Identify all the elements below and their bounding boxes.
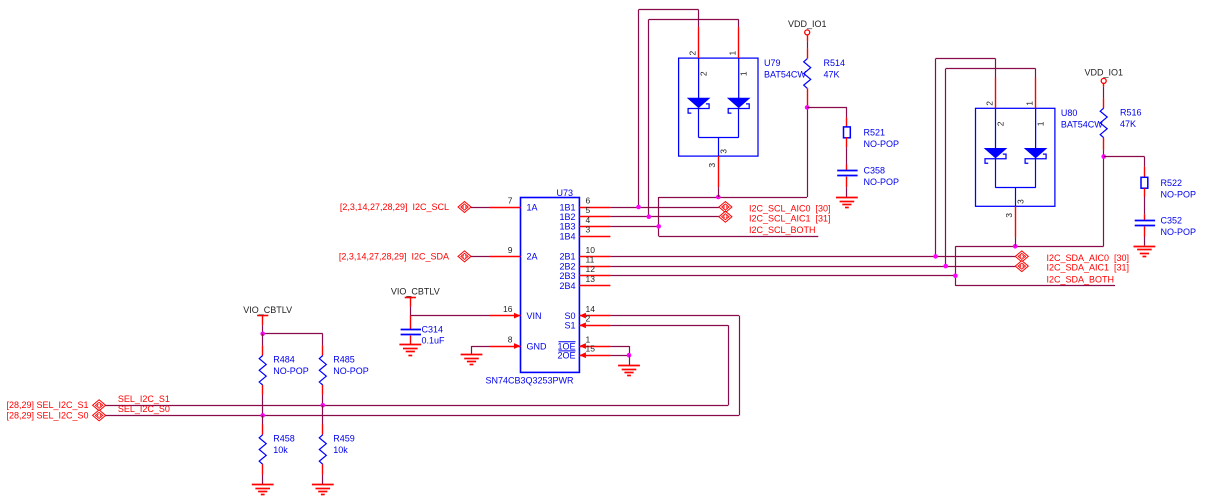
junction R516 bottom bbox=[1101, 154, 1106, 159]
svg-text:1: 1 bbox=[739, 71, 749, 76]
U80 pin number 1 bbox=[1025, 101, 1035, 106]
R458 top lead bbox=[262, 415, 264, 434]
svg-text:BAT54CW: BAT54CW bbox=[764, 70, 806, 80]
R484 reference bbox=[273, 355, 295, 365]
U79 pin 3 lead bbox=[718, 156, 720, 197]
U73 pin 5 stub bbox=[579, 205, 610, 216]
svg-text:NO-POP: NO-POP bbox=[333, 366, 369, 376]
svg-text:9: 9 bbox=[508, 245, 513, 255]
net label I2C_SCL_AIC0 bbox=[749, 204, 831, 214]
svg-text:1: 1 bbox=[1036, 121, 1046, 126]
C352 reference bbox=[1161, 216, 1183, 226]
R514 value 47K bbox=[824, 70, 840, 80]
svg-text:VIO_CBTLV: VIO_CBTLV bbox=[243, 305, 292, 315]
svg-text:3: 3 bbox=[1016, 199, 1026, 204]
R521 bottom lead bbox=[846, 137, 848, 164]
wire R514 junction to R521 bbox=[807, 107, 847, 117]
C314 reference bbox=[422, 325, 444, 335]
R516 reference bbox=[1120, 107, 1142, 117]
junction R514 bottom bbox=[805, 105, 810, 110]
svg-text:14: 14 bbox=[586, 304, 596, 314]
svg-text:1: 1 bbox=[728, 51, 738, 56]
U80 internal cathode join bbox=[996, 158, 1036, 206]
net label I2C_SDA bbox=[339, 251, 449, 261]
U80 pin number 2 bbox=[985, 101, 995, 106]
svg-text:NO-POP: NO-POP bbox=[1161, 227, 1197, 237]
net name SEL_I2C_S0 bbox=[118, 404, 170, 414]
svg-text:VIN: VIN bbox=[527, 311, 542, 321]
wire R516 junction to R522 bbox=[1104, 157, 1145, 167]
R516 value 47K bbox=[1120, 119, 1136, 129]
wire 1B1 up-loop to U79 pin 2 bbox=[639, 10, 699, 208]
svg-text:4: 4 bbox=[586, 215, 591, 225]
resistor R458 bbox=[259, 435, 266, 465]
svg-text:I2C_SCL_AIC0 [30]: I2C_SCL_AIC0 [30] bbox=[749, 204, 831, 214]
svg-text:U79: U79 bbox=[764, 58, 781, 68]
svg-text:VIO_CBTLV: VIO_CBTLV bbox=[391, 286, 440, 296]
U73 pin name S0 bbox=[564, 311, 575, 321]
U73 pin name GND bbox=[527, 341, 548, 351]
off-page connector SEL_I2C_S1 bbox=[93, 400, 106, 411]
wire 1B2 to connector bbox=[610, 216, 719, 218]
svg-text:[2,3,14,27,28,29] I2C_SDA: [2,3,14,27,28,29] I2C_SDA bbox=[339, 251, 449, 261]
wire S1 net bbox=[106, 325, 729, 405]
svg-text:SEL_I2C_S0: SEL_I2C_S0 bbox=[118, 404, 170, 414]
R521 reference bbox=[864, 128, 886, 138]
svg-text:2B3: 2B3 bbox=[559, 271, 575, 281]
U73 pin name 1OE (active low) bbox=[557, 341, 575, 351]
svg-text:47K: 47K bbox=[824, 70, 840, 80]
R522 reference bbox=[1161, 178, 1183, 188]
svg-text:NO-POP: NO-POP bbox=[864, 139, 900, 149]
svg-text:R484: R484 bbox=[273, 355, 295, 365]
net label I2C_SCL bbox=[340, 202, 449, 212]
net name VIO_CBTLV (C314) bbox=[391, 286, 440, 296]
U80 pin 1 lead bbox=[1035, 78, 1037, 109]
wire I2C_SDA_BOTH bbox=[955, 285, 1115, 287]
svg-text:13: 13 bbox=[586, 274, 596, 284]
net label I2C_SCL_AIC1 bbox=[749, 213, 831, 223]
net label I2C_SDA_BOTH bbox=[1047, 275, 1115, 285]
R485 value NO-POP bbox=[333, 366, 369, 376]
resistor R485 (NO-POP) bbox=[319, 356, 326, 386]
svg-text:VDD_IO1: VDD_IO1 bbox=[1084, 68, 1123, 78]
wire U80 pin3 bus bbox=[955, 246, 1103, 248]
svg-text:3: 3 bbox=[707, 163, 717, 168]
capacitor C358 (NO-POP) bbox=[837, 171, 857, 176]
wire 2B1 to connector bbox=[610, 256, 1015, 258]
U79 value BAT54CW bbox=[764, 70, 806, 80]
junction 2B1 bbox=[933, 254, 938, 259]
U79 pin number 2 bbox=[688, 51, 698, 56]
net name VDD_IO1 (left) bbox=[788, 19, 827, 29]
U79 pin number 1 bbox=[728, 51, 738, 56]
C352 value NO-POP bbox=[1161, 227, 1197, 237]
junction 1B3 bbox=[656, 224, 661, 229]
U73 pin name 1B1 bbox=[559, 202, 575, 212]
wire 2B2 up-loop to U80 pin 1 bbox=[946, 69, 1036, 267]
U73 pin 2 stub bbox=[579, 314, 610, 328]
R514 reference bbox=[824, 58, 846, 68]
capacitor C314 bbox=[401, 330, 421, 335]
R522 bottom lead bbox=[1144, 188, 1146, 214]
wire I2C_SCL_BOTH vertical bbox=[658, 197, 660, 236]
resistor R459 bbox=[319, 435, 326, 465]
svg-text:47K: 47K bbox=[1120, 119, 1136, 129]
R521 value NO-POP bbox=[864, 139, 900, 149]
U73 value SN74CB3Q3253PWR bbox=[486, 376, 575, 386]
U80 pin 3 lead bbox=[1015, 206, 1017, 246]
U73 pin name 2B2 bbox=[559, 261, 575, 271]
svg-text:BAT54CW: BAT54CW bbox=[1061, 120, 1103, 130]
svg-text:11: 11 bbox=[586, 255, 595, 265]
U73 pin name VIN bbox=[527, 311, 542, 321]
wire 1B3 bbox=[610, 226, 658, 228]
svg-text:R514: R514 bbox=[824, 58, 846, 68]
junction OE bbox=[627, 353, 632, 358]
R485 bottom lead bbox=[322, 385, 324, 405]
U73 pin name 2B4 bbox=[559, 281, 575, 291]
svg-text:I2C_SCL_BOTH: I2C_SCL_BOTH bbox=[749, 225, 816, 235]
U73 pin 12 stub bbox=[579, 264, 610, 275]
U73 pin name 1A bbox=[527, 202, 538, 212]
U80 pin name 1 bbox=[1036, 121, 1046, 126]
svg-text:16: 16 bbox=[503, 304, 513, 314]
ground below R459 bbox=[312, 485, 334, 495]
R484 value NO-POP bbox=[273, 366, 309, 376]
U79 pin 2 lead bbox=[698, 27, 700, 58]
svg-text:R522: R522 bbox=[1161, 178, 1183, 188]
ground at U73 GND bbox=[461, 355, 483, 365]
U73 pin 14 stub bbox=[579, 304, 610, 319]
wire S0 net bbox=[106, 316, 740, 416]
R514 bottom lead bbox=[807, 88, 809, 107]
capacitor C314 top lead bbox=[410, 316, 412, 330]
svg-text:3: 3 bbox=[586, 225, 591, 235]
svg-text:R459: R459 bbox=[333, 434, 355, 444]
U73 pin 1 stub bbox=[579, 334, 610, 349]
U79 diode D1 (left, pin 2) bbox=[688, 58, 709, 113]
svg-text:1: 1 bbox=[1025, 101, 1035, 106]
capacitor C352 top lead bbox=[1144, 214, 1146, 220]
net name VIO_CBTLV (left) bbox=[243, 305, 292, 315]
ground below C358 bbox=[836, 198, 858, 208]
R484 top lead bbox=[262, 334, 264, 356]
off-page connector I2C_SDA bbox=[458, 251, 471, 262]
svg-text:2B1: 2B1 bbox=[559, 252, 575, 262]
svg-text:I2C_SDA_AIC0 [30]: I2C_SDA_AIC0 [30] bbox=[1047, 253, 1130, 263]
junction U79 pin 3 bbox=[716, 195, 721, 200]
svg-text:2: 2 bbox=[985, 101, 995, 106]
capacitor C358 top lead bbox=[846, 165, 848, 171]
capacitor C352 (NO-POP) bbox=[1135, 221, 1155, 226]
power symbol VDD_IO1 (right) bbox=[1101, 78, 1106, 86]
U73 pin 8 stub bbox=[490, 334, 521, 349]
svg-text:S1: S1 bbox=[564, 321, 575, 331]
U73 pin name 1B4 bbox=[559, 231, 575, 241]
svg-text:I2C_SDA_AIC1 [31]: I2C_SDA_AIC1 [31] bbox=[1047, 263, 1130, 273]
wire 2B3 bbox=[610, 275, 955, 277]
U73 pin 11 stub bbox=[579, 255, 610, 267]
wire 1B1 to connector bbox=[610, 207, 719, 209]
power symbol VDD_IO1 (left) bbox=[805, 30, 810, 41]
svg-text:1B3: 1B3 bbox=[559, 222, 575, 232]
net label SEL_I2C_S1 (left) bbox=[6, 400, 88, 410]
C358 value NO-POP bbox=[864, 177, 900, 187]
svg-text:R458: R458 bbox=[273, 434, 295, 444]
U73 reference designator bbox=[557, 188, 574, 198]
svg-text:I2C_SDA_BOTH: I2C_SDA_BOTH bbox=[1047, 275, 1115, 285]
C358 bottom lead bbox=[846, 177, 848, 198]
svg-text:8: 8 bbox=[508, 334, 513, 344]
svg-text:3: 3 bbox=[1004, 213, 1014, 218]
svg-text:I2C_SCL_AIC1 [31]: I2C_SCL_AIC1 [31] bbox=[749, 213, 831, 223]
wire I2C_SCL bbox=[471, 207, 490, 209]
U73 pin 7 stub bbox=[490, 195, 521, 207]
svg-text:15: 15 bbox=[586, 344, 596, 354]
U79 pin name 2 bbox=[699, 71, 709, 76]
net label I2C_SDA_AIC0 bbox=[1047, 253, 1130, 263]
R484 bottom lead bbox=[262, 385, 264, 415]
U73 pin name 2B1 bbox=[559, 252, 575, 262]
svg-text:10: 10 bbox=[586, 245, 596, 255]
svg-text:R485: R485 bbox=[333, 355, 355, 365]
U73 pin name 2B3 bbox=[559, 271, 575, 281]
wire 2B1 up-loop to U80 pin 2 bbox=[936, 59, 996, 257]
R522 top lead bbox=[1144, 167, 1146, 178]
resistor R521 (NO-POP) bbox=[844, 127, 851, 138]
svg-text:SEL_I2C_S1: SEL_I2C_S1 bbox=[118, 394, 170, 404]
U73 pin name 1B3 bbox=[559, 222, 575, 232]
U80 diode D2 (right, pin 1) bbox=[1025, 108, 1046, 163]
ground below C314 bbox=[399, 345, 421, 356]
U79 pin name 1 bbox=[739, 71, 749, 76]
R516 bottom lead bbox=[1103, 138, 1105, 157]
svg-text:2B4: 2B4 bbox=[559, 281, 575, 291]
U73 pin 13 stub bbox=[579, 274, 610, 286]
wire GND pin to ground bbox=[472, 346, 490, 354]
R458 reference bbox=[273, 434, 295, 444]
R522 value NO-POP bbox=[1161, 190, 1197, 200]
U73 pin name S1 bbox=[564, 321, 575, 331]
svg-text:5: 5 bbox=[586, 205, 591, 215]
svg-text:12: 12 bbox=[586, 264, 596, 274]
IC U73 body (SN74CB3Q3253 mux) bbox=[521, 198, 580, 373]
svg-text:[2,3,14,27,28,29] I2C_SCL: [2,3,14,27,28,29] I2C_SCL bbox=[340, 202, 449, 212]
C314 bottom lead bbox=[410, 336, 412, 345]
U79 pin number 3 bbox=[707, 163, 717, 168]
C314 value 0.1uF bbox=[422, 335, 446, 345]
power symbol VIO_CBTLV (C314) bbox=[405, 297, 416, 307]
U80 value BAT54CW bbox=[1061, 120, 1103, 130]
wire VDD to R514 bbox=[807, 41, 809, 59]
U73 pin name 2A bbox=[527, 252, 538, 262]
wire 2B2 to connector bbox=[610, 266, 1015, 268]
U73 pin 10 stub bbox=[579, 245, 610, 257]
ground below R458 bbox=[252, 485, 274, 495]
C358 reference bbox=[864, 166, 886, 176]
svg-text:2: 2 bbox=[586, 314, 591, 324]
net label SEL_I2C_S0 (left) bbox=[6, 410, 88, 420]
svg-text:C314: C314 bbox=[422, 325, 444, 335]
R521 top lead bbox=[846, 117, 848, 127]
svg-text:1B1: 1B1 bbox=[559, 202, 575, 212]
net label I2C_SDA_AIC1 bbox=[1047, 263, 1130, 273]
R459 top lead bbox=[322, 405, 324, 434]
wire VDD to R516 bbox=[1103, 87, 1105, 108]
svg-text:2: 2 bbox=[688, 51, 698, 56]
off-page connector I2C_SCL_AIC0 bbox=[719, 202, 732, 213]
R459 value 10k bbox=[333, 445, 348, 455]
junction R484-S0 bbox=[260, 413, 265, 418]
svg-text:2A: 2A bbox=[527, 252, 538, 262]
U73 pin 4 stub bbox=[579, 215, 610, 227]
junction 1B1 bbox=[636, 205, 641, 210]
U73 pin 6 stub bbox=[579, 195, 610, 207]
C352 bottom lead bbox=[1144, 227, 1146, 246]
diode pack U79 body bbox=[679, 58, 758, 156]
svg-text:6: 6 bbox=[586, 195, 591, 205]
wire VIO junction bbox=[263, 325, 323, 345]
svg-text:7: 7 bbox=[508, 195, 513, 205]
wire OE to ground bbox=[629, 355, 631, 365]
svg-text:R521: R521 bbox=[864, 128, 886, 138]
U73 pin 16 stub bbox=[490, 304, 521, 319]
svg-text:GND: GND bbox=[527, 341, 548, 351]
U80 pin number 3 bbox=[1004, 213, 1014, 218]
svg-text:2OE: 2OE bbox=[557, 351, 575, 361]
U80 pin 2 lead bbox=[995, 78, 997, 109]
wire I2C_SDA bbox=[471, 256, 490, 258]
wire R514 bottom vertical bbox=[807, 107, 809, 197]
svg-text:2: 2 bbox=[699, 71, 709, 76]
junction 2B2 bbox=[943, 264, 948, 269]
wire 2OE bbox=[610, 355, 629, 357]
svg-text:NO-POP: NO-POP bbox=[273, 366, 309, 376]
U80 pin name 3 bbox=[1016, 199, 1026, 204]
net name VDD_IO1 (right) bbox=[1084, 68, 1123, 78]
R458 bottom lead bbox=[262, 464, 264, 484]
svg-text:C358: C358 bbox=[864, 166, 886, 176]
wire 1OE jog bbox=[610, 346, 629, 355]
svg-text:10k: 10k bbox=[273, 445, 288, 455]
off-page connector I2C_SCL_AIC1 bbox=[719, 211, 732, 222]
junction U80 pin 3 bbox=[1013, 244, 1018, 249]
svg-text:VDD_IO1: VDD_IO1 bbox=[788, 19, 827, 29]
R459 bottom lead bbox=[322, 464, 324, 484]
junction VIO bbox=[260, 332, 265, 337]
U73 pin name 1B2 bbox=[559, 212, 575, 222]
svg-text:[28,29] SEL_I2C_S1: [28,29] SEL_I2C_S1 bbox=[6, 400, 88, 410]
R485 reference bbox=[333, 355, 355, 365]
U79 diode D2 (right, pin 1) bbox=[728, 58, 749, 113]
U73 pin 15 stub bbox=[579, 344, 610, 359]
svg-text:NO-POP: NO-POP bbox=[864, 177, 900, 187]
U79 reference designator bbox=[764, 58, 781, 68]
svg-text:S0: S0 bbox=[564, 311, 575, 321]
U80 pin name 2 bbox=[996, 121, 1006, 126]
ground at OE bbox=[618, 366, 640, 376]
U79 pin 1 lead bbox=[738, 27, 740, 58]
R459 reference bbox=[333, 434, 355, 444]
R485 top lead bbox=[322, 345, 324, 355]
power symbol VIO_CBTLV (left) bbox=[257, 316, 268, 326]
U79 internal cathode join bbox=[699, 108, 739, 156]
U73 pin 9 stub bbox=[490, 245, 521, 257]
U79 pin name 3 bbox=[719, 149, 729, 154]
diode pack U80 body bbox=[976, 108, 1055, 206]
R458 value 10k bbox=[273, 445, 288, 455]
svg-text:NO-POP: NO-POP bbox=[1161, 190, 1197, 200]
svg-text:SN74CB3Q3253PWR: SN74CB3Q3253PWR bbox=[486, 376, 575, 386]
svg-text:0.1uF: 0.1uF bbox=[422, 335, 446, 345]
net name SEL_I2C_S1 bbox=[118, 394, 170, 404]
wire U79 pin3 bus bbox=[659, 197, 807, 199]
U80 diode D1 (left, pin 2) bbox=[985, 108, 1006, 163]
svg-text:1A: 1A bbox=[527, 202, 538, 212]
svg-text:U80: U80 bbox=[1061, 108, 1078, 118]
off-page connector I2C_SCL bbox=[458, 202, 471, 213]
net label I2C_SCL_BOTH bbox=[749, 225, 816, 235]
junction R485-S1 bbox=[321, 403, 326, 408]
ground below C352 bbox=[1134, 247, 1156, 257]
U73 pin 3 stub bbox=[579, 225, 610, 237]
svg-text:3: 3 bbox=[719, 149, 729, 154]
wire I2C_SDA_BOTH vertical bbox=[955, 246, 957, 285]
resistor R522 (NO-POP) bbox=[1141, 177, 1148, 188]
svg-text:2: 2 bbox=[996, 121, 1006, 126]
off-page connector I2C_SDA_AIC0 bbox=[1015, 251, 1028, 262]
svg-text:C352: C352 bbox=[1161, 216, 1183, 226]
wire R516 bottom vertical bbox=[1103, 157, 1105, 247]
svg-text:1B4: 1B4 bbox=[559, 231, 575, 241]
wire 1B2 up-loop to U79 pin 1 bbox=[649, 19, 739, 216]
svg-text:R516: R516 bbox=[1120, 107, 1142, 117]
resistor R514 bbox=[804, 59, 811, 89]
U80 reference designator bbox=[1061, 108, 1078, 118]
resistor R516 bbox=[1100, 108, 1107, 138]
svg-text:[28,29] SEL_I2C_S0: [28,29] SEL_I2C_S0 bbox=[6, 410, 88, 420]
U73 pin name 2OE (active low) bbox=[557, 351, 575, 361]
off-page connector I2C_SDA_AIC1 bbox=[1015, 261, 1028, 272]
junction 2B3 bbox=[953, 274, 958, 279]
svg-text:U73: U73 bbox=[557, 188, 574, 198]
wire I2C_SCL_BOTH bbox=[659, 236, 819, 238]
off-page connector SEL_I2C_S0 bbox=[93, 410, 106, 421]
junction 1B2 bbox=[647, 214, 652, 219]
svg-text:2B2: 2B2 bbox=[559, 261, 575, 271]
svg-text:10k: 10k bbox=[333, 445, 348, 455]
svg-text:1B2: 1B2 bbox=[559, 212, 575, 222]
wire VIO to VIN bbox=[410, 307, 489, 316]
resistor R484 (NO-POP) bbox=[259, 356, 266, 386]
